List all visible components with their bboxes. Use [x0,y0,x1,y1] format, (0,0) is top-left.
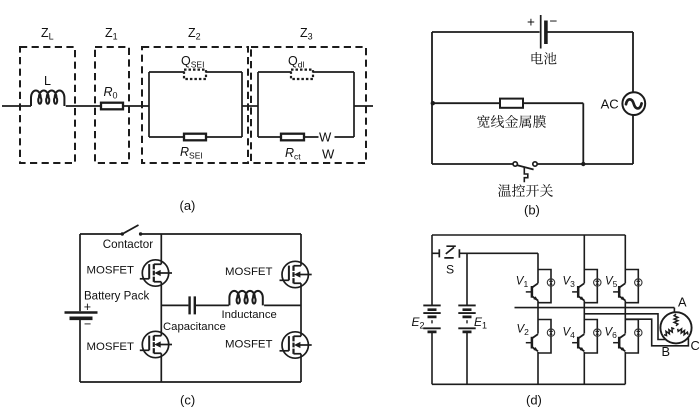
wire bottom bus of (d) [432,383,625,385]
freewheel diode D5 [635,279,642,286]
wire diode loop lower V6 [625,320,638,354]
wire phase B output [584,314,666,340]
freewheel diode D2 [547,329,554,336]
resistor 宽线金属膜 (film resistor) [500,99,523,108]
inductor coil (c) [229,291,262,306]
svg-text:E1: E1 [474,315,487,331]
wire right side of loop (b) [632,32,634,164]
switch contact right (circle) [533,162,537,166]
IGBT V4 [572,334,584,351]
svg-text:ZL: ZL [41,26,54,42]
svg-text:R0: R0 [104,85,118,101]
svg-text:Z2: Z2 [188,26,201,42]
wire Z2 to Z3 [242,105,258,107]
resistor R0 [101,103,123,110]
box Z_L (dashed impedance box) [20,47,75,163]
svg-text:W: W [322,147,335,162]
svg-text:Inductance: Inductance [222,309,277,321]
freewheel diode D6 [635,329,642,336]
contactor contact dots [121,232,124,235]
MOSFET lower-left [140,331,172,357]
IGBT V6 [613,334,625,351]
wire left side of loop (b) [431,32,433,164]
IGBT V1 [526,283,538,300]
wire leg V1/V2 verticals [537,253,539,384]
svg-text:+: + [527,15,535,30]
svg-text:Battery Pack: Battery Pack [84,291,149,303]
wire E1 top lead [466,253,468,305]
capacitor plates [190,296,195,314]
svg-text:V3: V3 [563,276,576,290]
svg-text:(c): (c) [180,393,195,408]
svg-text:A: A [678,295,687,310]
switch contact left (circle) [513,162,517,166]
svg-text:MOSFET: MOSFET [87,341,135,353]
wire E2 bottom lead [431,332,433,384]
wire diode loop lower V2 [538,320,551,354]
svg-text:Rct: Rct [285,146,301,162]
CPE Q_dl (dotted box) [291,70,313,79]
svg-text:MOSFET: MOSFET [87,265,135,277]
svg-text:L: L [44,74,51,88]
wire mid rail segments (left MOSFET leg) [160,234,162,382]
freewheel diode D3 [594,279,601,286]
wire E1 bottom lead [466,332,468,384]
label 电池 (battery) [532,52,557,65]
label 温控开关 (thermal switch) [498,184,553,197]
wire diode loop upper V3 [584,270,597,303]
battery E2 [423,305,440,332]
wire left rail upper [79,234,81,311]
battery 电池 plates [540,15,542,49]
switch thermal actuator [524,167,528,182]
svg-text:−: − [84,317,91,331]
svg-text:V2: V2 [517,324,530,338]
svg-text:Contactor: Contactor [103,238,153,251]
MOSFET upper-right [280,261,312,287]
wire leg V5/V6 verticals [624,235,626,384]
resistor R_SEI [184,134,206,141]
wire top bus of (d) [432,234,625,236]
box Z_2 (dashed impedance box) [142,47,248,163]
wire bottom side of loop (b) [432,163,633,165]
freewheel diode D4 [594,329,601,336]
motor star winding [664,314,688,336]
wire middle branch of (c) [161,304,301,306]
svg-text:MOSFET: MOSFET [225,339,273,351]
contactor blade [122,225,138,234]
wire right rail segments (right MOSFET leg) [300,234,302,382]
junction node bottom (dot) [581,162,585,166]
box Z_3 (dashed impedance box) [251,47,366,163]
node rails of Z2 parallel RC (rectangle) [149,72,242,137]
battery pack short plate [70,316,93,320]
motor circle [660,312,691,343]
wire left rail lower [79,320,81,382]
wire switch row (S) [432,252,538,254]
svg-text:Qdl: Qdl [288,54,304,70]
wire R0 to Z2 network [123,105,149,107]
wire left rail upper [431,235,433,305]
svg-text:Z3: Z3 [300,26,313,42]
freewheel diode D1 [547,279,554,286]
svg-text:C: C [691,338,700,353]
wire bottom side [80,381,301,383]
svg-text:Z1: Z1 [105,26,118,42]
box Z_1 (dashed impedance box) [95,47,129,163]
IGBT V2 [526,334,538,351]
svg-text:RSEI: RSEI [180,145,203,161]
svg-text:(b): (b) [524,203,540,218]
IGBT V3 [572,283,584,300]
wire top side of loop (b) [432,31,633,33]
wire main line right [354,105,373,107]
wire phase C output [625,319,688,346]
svg-text:(a): (a) [180,198,196,213]
inductor L [31,90,64,106]
svg-text:AC: AC [601,97,619,112]
svg-text:V5: V5 [605,276,618,290]
battery pack long plate [65,311,98,314]
wire middle branch with film resistor [432,103,583,164]
wire main line left [2,105,31,107]
svg-text:MOSFET: MOSFET [225,266,273,278]
MOSFET lower-right [280,332,312,358]
wire between L and R0 [66,105,101,107]
label 宽线金属膜 (wide-line metal film) [477,115,546,128]
wire leg V3/V4 verticals [583,235,585,384]
wire diode loop upper V5 [625,270,638,303]
svg-text:W: W [319,130,332,145]
svg-text:−: − [550,14,558,29]
node rails of Z3 parallel network (rectangle) [258,72,354,137]
svg-text:V6: V6 [605,327,618,341]
svg-text:V1: V1 [516,276,529,290]
IGBT V5 [613,283,625,300]
switch S ticks [439,249,459,258]
switch blade 温控开关 [517,165,533,169]
wire diode loop upper V1 [538,270,551,303]
wire top side with contactor gap [80,233,301,235]
svg-text:S: S [446,263,454,277]
AC source circle [622,92,645,115]
CPE Q_SEI (dotted box) [184,70,206,79]
AC sine wave [626,99,642,108]
svg-text:E2: E2 [412,315,425,331]
wire phase A output [515,308,675,313]
battery E1 [458,305,475,332]
junction node left (dot) [431,101,435,105]
switch S blade [444,246,456,258]
svg-text:QSEI: QSEI [181,54,204,70]
svg-text:Capacitance: Capacitance [163,321,226,333]
wire diode loop lower V4 [584,320,597,354]
resistor R_ct [281,134,304,141]
svg-text:(d): (d) [526,393,542,408]
svg-text:V4: V4 [563,327,576,341]
MOSFET upper-left [140,260,172,286]
